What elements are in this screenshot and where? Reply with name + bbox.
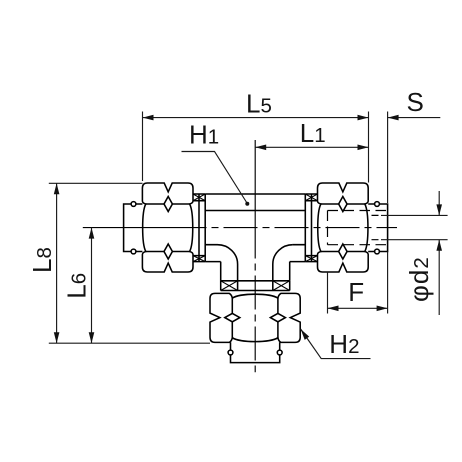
- svg-text:φd2: φd2: [404, 256, 434, 302]
- right collar: [305, 194, 317, 262]
- svg-text:F: F: [348, 277, 364, 307]
- leader dot H1: [245, 202, 249, 206]
- extension line F left: [327, 272, 329, 314]
- right stub (threaded end): [368, 204, 387, 252]
- arrow L6 top: [89, 228, 95, 239]
- leader H1: [182, 152, 248, 204]
- left stub (tube port): [124, 204, 143, 252]
- dimension line L1: [255, 146, 368, 148]
- hidden thread bore (dashed): [328, 211, 388, 245]
- bottom collar: [221, 281, 290, 291]
- arrow phi-d2 top: [436, 204, 442, 215]
- svg-text:L1: L1: [300, 118, 326, 148]
- left nut outline: [142, 183, 193, 272]
- extension line F right: [387, 252, 389, 314]
- dimension line F: [328, 307, 388, 309]
- arrow L8 top: [54, 183, 60, 194]
- dimension tail S: [388, 117, 441, 119]
- branch fillet right: [273, 245, 293, 281]
- bottom nut division lines: [232, 298, 278, 338]
- extension line S right: [387, 112, 389, 204]
- right nut division lines: [321, 204, 365, 252]
- svg-text:H1: H1: [189, 119, 219, 149]
- svg-text:S: S: [407, 87, 424, 117]
- extension line S left / L5 right: [368, 112, 370, 183]
- dimension line phi-d2: [438, 191, 440, 315]
- arrow L5 left: [143, 115, 154, 121]
- branch outer walls: [221, 262, 290, 281]
- svg-text:L6: L6: [62, 273, 92, 299]
- dimension line L6: [91, 228, 93, 344]
- right nut outline: [318, 183, 369, 272]
- dimension line L5: [143, 117, 369, 119]
- bottom stub: [231, 342, 280, 362]
- left nut division lines: [146, 204, 190, 252]
- dimension line L8: [56, 183, 58, 343]
- leader H2: [301, 329, 371, 359]
- arrow phi-d2 bottom: [436, 240, 442, 251]
- arrow F right: [377, 306, 388, 312]
- arrow L1 left: [255, 145, 266, 151]
- extension line left bottom: [49, 342, 210, 344]
- extension line L5 left: [142, 112, 144, 182]
- arrow S: [388, 115, 399, 121]
- right nut diamonds: [339, 197, 347, 212]
- extension line left top: [49, 182, 143, 184]
- arrow F left: [328, 306, 339, 312]
- left collar: [193, 194, 205, 262]
- bottom stub circles: [228, 350, 233, 355]
- main centerline: [83, 227, 397, 229]
- bottom nut outline: [210, 293, 300, 342]
- left nut diamonds: [164, 197, 172, 212]
- body (tee center block): [205, 194, 305, 262]
- svg-text:L8: L8: [27, 247, 57, 273]
- arrow L1 right: [358, 145, 369, 151]
- arrow L5 right: [358, 115, 369, 121]
- branch fillet left: [218, 245, 238, 281]
- bottom nut diamonds: [225, 313, 240, 321]
- svg-text:H2: H2: [329, 329, 359, 359]
- right stub circles: [375, 202, 380, 207]
- arrow H2: [301, 329, 310, 340]
- extension line phi-d2 bottom: [381, 239, 448, 241]
- svg-text:L5: L5: [246, 88, 272, 118]
- arrow L6 bottom: [89, 332, 95, 343]
- arrow L8 bottom: [54, 332, 60, 343]
- branch centerline: [254, 140, 256, 372]
- left stub circles: [131, 202, 136, 207]
- extension line phi-d2 top: [381, 214, 448, 216]
